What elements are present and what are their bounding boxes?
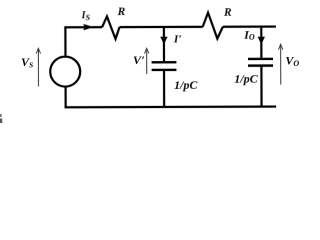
wire: middle branch lower stub xyxy=(163,71,165,107)
resistor R2 xyxy=(203,13,223,39)
voltage arrow V' (thin up arrow) xyxy=(146,49,148,74)
svg-text:R: R xyxy=(117,6,126,18)
svg-text:VS: VS xyxy=(21,55,33,69)
voltage arrow Vo (thin up arrow) xyxy=(280,45,282,84)
svg-text:VO: VO xyxy=(285,54,299,68)
svg-text:IS: IS xyxy=(81,10,91,22)
wire: top rail middle segment xyxy=(119,26,202,28)
current arrow Is (arrowhead on top wire) xyxy=(83,24,93,30)
capacitor C2 plates xyxy=(248,59,273,66)
wire: right branch lower stub xyxy=(260,67,262,107)
svg-text:I′: I′ xyxy=(173,33,182,45)
stray mark at left edge xyxy=(0,114,2,117)
capacitor C1 plates xyxy=(152,62,177,70)
source Vs (circle) xyxy=(50,57,80,87)
current arrow I' (down arrowhead) xyxy=(160,37,167,45)
svg-text:R: R xyxy=(223,7,232,19)
wire: source bottom lead xyxy=(66,87,277,108)
wire: top rail right segment xyxy=(223,25,276,27)
wire: top rail left segment with source corner xyxy=(65,27,102,56)
svg-text:1/pC: 1/pC xyxy=(174,78,198,92)
voltage arrow Vs (thin up arrow) xyxy=(37,49,39,87)
resistor R1 xyxy=(102,16,119,39)
wire: right branch upper stub xyxy=(260,27,262,58)
svg-text:1/pC: 1/pC xyxy=(234,72,258,86)
current arrow Io (down arrowhead) xyxy=(258,37,265,45)
wire: middle branch upper stub xyxy=(163,27,165,61)
svg-text:V′: V′ xyxy=(133,53,145,67)
svg-text:IO: IO xyxy=(243,28,255,42)
